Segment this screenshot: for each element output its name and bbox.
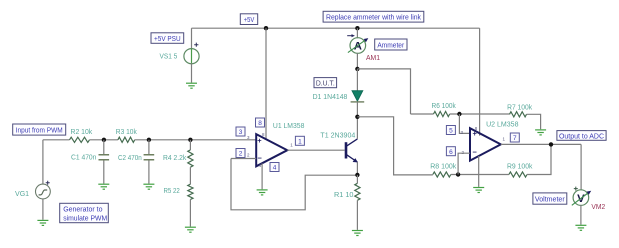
- op-amp U2 LM358: [470, 128, 501, 160]
- wire U2 pin4 lead: [478, 156, 480, 187]
- op-amp U1 LM358: [256, 134, 287, 166]
- resistor R6: [434, 111, 450, 116]
- resistor R8: [433, 172, 451, 177]
- wire U1 pin4 lead: [261, 163, 263, 189]
- ground below C1: [98, 184, 109, 189]
- wire R7 to ground: [527, 114, 541, 129]
- svg-text:simulate PWM: simulate PWM: [63, 216, 107, 223]
- svg-text:VG1: VG1: [15, 191, 29, 198]
- pin label 4 (U1 V-): [270, 163, 279, 172]
- svg-text:R2 10k: R2 10k: [71, 129, 93, 136]
- resistor R9: [509, 172, 527, 177]
- svg-text:5: 5: [449, 128, 453, 135]
- junction R6/U2 +in: [457, 112, 461, 116]
- wire ammeter bottom lead: [356, 53, 358, 69]
- capacitor C1: [99, 140, 110, 184]
- text label D.U.T.: [314, 78, 337, 88]
- svg-text:+5V PSU: +5V PSU: [154, 36, 181, 43]
- wire VG1 bottom lead: [42, 199, 44, 220]
- svg-text:R4 2.2k: R4 2.2k: [163, 155, 187, 162]
- svg-text:4: 4: [273, 165, 277, 172]
- pin label 6 (U2 -in): [446, 147, 455, 156]
- pin label 2 (U1 -in): [236, 149, 245, 158]
- svg-text:Ammeter: Ammeter: [377, 42, 404, 49]
- wire voltmeter riser: [580, 144, 582, 190]
- svg-text:VS1 5: VS1 5: [160, 54, 178, 61]
- svg-text:R9 100k: R9 100k: [507, 164, 533, 171]
- svg-text:R7 100k: R7 100k: [507, 105, 532, 112]
- voltage source VS1: [184, 43, 199, 64]
- ground below R7: [535, 130, 546, 135]
- svg-text:D1 1N4148: D1 1N4148: [313, 94, 348, 101]
- svg-text:−: −: [473, 148, 478, 157]
- generator VG1: [36, 181, 51, 199]
- ground below R5: [185, 227, 196, 232]
- svg-text:6: 6: [449, 149, 453, 156]
- wire T1 collector riser: [356, 117, 358, 139]
- svg-text:R5 22: R5 22: [164, 188, 180, 195]
- ground below voltmeter: [575, 225, 586, 230]
- wire R2 to C1 junction: [90, 139, 118, 141]
- ground below R1: [352, 231, 363, 236]
- wire node A to R6 left lead: [411, 113, 434, 115]
- svg-text:R8 100k: R8 100k: [430, 164, 457, 171]
- junction R8/U2 -in: [456, 172, 460, 176]
- svg-text:−: −: [258, 153, 263, 162]
- pin label 3 (U1 +in): [236, 127, 245, 136]
- wire U1 output to T1 base: [287, 149, 344, 151]
- transistor T1 2N3904: [346, 139, 358, 163]
- wire U2 output: [501, 143, 581, 145]
- wire input node to R2: [43, 139, 70, 141]
- ammeter AM1: [347, 34, 368, 53]
- wire +5V top rail: [192, 27, 480, 29]
- net label +5V: [240, 14, 257, 25]
- svg-text:7: 7: [513, 135, 517, 142]
- svg-text:D.U.T.: D.U.T.: [316, 81, 335, 88]
- svg-text:Replace ammeter with wire link: Replace ammeter with wire link: [326, 15, 421, 22]
- svg-text:A: A: [354, 41, 362, 53]
- wire T1 emitter riser: [356, 162, 358, 175]
- ground below C2: [143, 184, 154, 189]
- wire U2 pin6 stub: [458, 153, 470, 174]
- resistor R3: [118, 137, 135, 142]
- svg-text:2: 2: [239, 151, 243, 158]
- svg-text:VM2: VM2: [591, 204, 605, 211]
- svg-text:Voltmeter: Voltmeter: [535, 196, 565, 203]
- junction emitter node: [355, 173, 359, 177]
- svg-text:R6 100k: R6 100k: [432, 103, 457, 110]
- pin label 5 (U2 +in): [446, 126, 455, 135]
- wire node A to R6 (right then down): [357, 69, 410, 114]
- text label Generator to simulate PWM: [60, 203, 109, 222]
- junction R4 top: [188, 138, 192, 142]
- wire R1 bottom lead: [356, 200, 358, 230]
- wire ammeter top lead: [356, 28, 358, 38]
- wire R4 to R5: [189, 167, 191, 184]
- svg-text:3: 3: [239, 129, 243, 136]
- svg-text:Input from PWM: Input from PWM: [16, 128, 63, 135]
- svg-text:U1 LM358: U1 LM358: [273, 123, 305, 130]
- svg-text:AM1: AM1: [366, 55, 380, 62]
- svg-text:8: 8: [258, 120, 262, 127]
- resistor R4: [188, 150, 193, 167]
- wire VG1 top lead: [42, 140, 44, 185]
- junction rail to U1 pin8: [264, 26, 268, 30]
- ground below VG1: [37, 220, 48, 225]
- text label Replace ammeter with wire link: [323, 11, 424, 22]
- svg-text:R1 10: R1 10: [334, 192, 354, 199]
- wire R5 bottom lead: [189, 200, 191, 227]
- pin label 8 (U1 V+): [256, 118, 265, 127]
- svg-text:U2 LM358: U2 LM358: [486, 121, 519, 128]
- svg-text:+: +: [257, 136, 262, 145]
- wire VS1 top lead: [191, 28, 193, 49]
- wire R4 top lead: [189, 140, 191, 150]
- resistor R1: [355, 183, 360, 200]
- net label Output to ADC: [557, 131, 606, 141]
- svg-text:Output to ADC: Output to ADC: [559, 133, 604, 140]
- junction R2/C1: [102, 138, 106, 142]
- svg-text:1: 1: [298, 139, 302, 146]
- wire U1 pin8 riser: [265, 28, 267, 139]
- ground below U2: [473, 188, 484, 193]
- diode D1 1N4148: [351, 69, 365, 117]
- wire cathode node to R8 (right, down, right): [357, 117, 432, 175]
- resistor R7: [510, 112, 527, 117]
- svg-text:R3 10k: R3 10k: [116, 129, 137, 136]
- junction R3/C2: [147, 138, 151, 142]
- wire U2 pin5 stub: [459, 114, 470, 133]
- ground below U1: [257, 190, 268, 195]
- wire R9 to output node: [527, 144, 551, 174]
- svg-text:V: V: [577, 193, 585, 205]
- wire VS1 bottom lead: [191, 63, 193, 82]
- junction U2 output/R9: [549, 142, 553, 146]
- svg-text:C2 470n: C2 470n: [118, 155, 142, 162]
- wire U1 feedback loop: [231, 159, 357, 210]
- text label Voltmeter: [533, 193, 567, 204]
- wire voltmeter bottom lead: [580, 205, 582, 225]
- net label Input from PWM: [13, 124, 66, 135]
- pin label 7 (U2 out): [510, 133, 519, 142]
- junction rail to ammeter: [355, 26, 359, 30]
- resistor R2: [70, 137, 90, 142]
- wire R6 to R7: [450, 113, 510, 115]
- svg-text:Generator to: Generator to: [63, 207, 102, 214]
- voltmeter VM2: [572, 187, 591, 206]
- svg-text:+5V: +5V: [244, 17, 255, 24]
- svg-text:C1 470n: C1 470n: [71, 155, 96, 162]
- wire R3 to U1 pin3: [135, 139, 257, 141]
- junction D1 cathode node: [355, 115, 359, 119]
- pin label 1 (U1 out): [295, 136, 304, 145]
- wire R8 to R9: [451, 174, 509, 176]
- svg-text:T1 2N3904: T1 2N3904: [320, 133, 355, 140]
- wire U2 pin8 riser: [479, 28, 481, 135]
- resistor R5: [188, 184, 193, 199]
- ground below VS1: [186, 83, 197, 88]
- capacitor C2: [144, 140, 155, 184]
- junction node D1 anode: [355, 67, 359, 71]
- wire R1 top lead: [356, 175, 358, 183]
- text label Ammeter: [375, 39, 407, 50]
- net label +5V PSU: [151, 33, 184, 44]
- wire U1 pin2 stub: [231, 158, 256, 160]
